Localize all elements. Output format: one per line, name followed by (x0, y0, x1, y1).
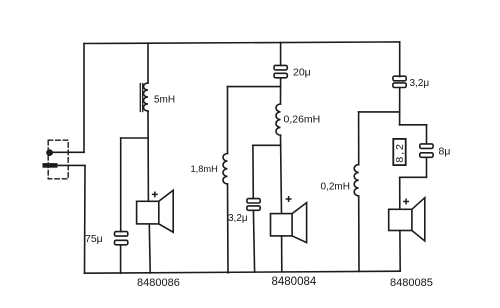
wire top rail (84, 42, 400, 44)
inductor 5mH core lines (140, 84, 142, 112)
wire 0.2mH branch lower (358, 196, 360, 272)
wire 3.2u branch lower (253, 210, 254, 272)
wire tap to 75u (121, 137, 148, 139)
inductor 0.2mH coil (354, 165, 359, 196)
speaker LS3 box (389, 209, 412, 230)
wire left vertical upper (input + to top rail) (83, 44, 85, 153)
wire input minus terminal lead (58, 164, 86, 166)
wire section1 branch top (147, 43, 149, 83)
wire RC bottom bar (400, 176, 427, 178)
capacitor 8u plates (420, 144, 433, 149)
svg-text:0,2mH: 0,2mH (321, 182, 350, 193)
inductor 5mH coil (144, 83, 149, 111)
input terminal dot (46, 149, 53, 156)
wire section2 branch to speaker (281, 135, 282, 213)
wire RC right upper (426, 125, 428, 144)
svg-text:3,2μ: 3,2μ (228, 213, 248, 224)
wire tap to 3.2u (middle) (253, 144, 281, 146)
capacitor 20u plates (274, 65, 287, 70)
wire 1.8mH branch upper (227, 87, 229, 154)
wire section2 branch top (280, 43, 282, 66)
capacitor 3.2u plates (right) (393, 76, 406, 81)
wire input plus terminal lead (50, 151, 84, 153)
svg-text:8μ: 8μ (439, 146, 451, 158)
speaker LS3 plus mark (404, 199, 408, 203)
wire bottom rail (84, 271, 400, 273)
capacitor 75u plates (115, 232, 128, 237)
speaker LS3 cone (412, 198, 425, 241)
wire RC top bar (400, 124, 427, 126)
wire section3 branch cap to RC (399, 88, 401, 125)
input dashed box (48, 140, 68, 179)
input terminal bar (43, 163, 58, 168)
svg-text:20μ: 20μ (293, 67, 311, 79)
wire speaker LS2 to bottom rail (281, 236, 283, 272)
speaker LS1 plus mark (153, 192, 157, 196)
wire 3.2u branch upper (252, 145, 254, 198)
wire 0.2mH branch upper (358, 112, 360, 165)
svg-text:75μ: 75μ (85, 233, 103, 245)
wire section3 branch top (399, 42, 401, 77)
wire 1.8mH branch lower (227, 184, 230, 273)
wire section2 branch between cap and coil (280, 78, 282, 104)
svg-text:8,2: 8,2 (394, 142, 406, 163)
wire speaker LS1 to bottom rail (148, 224, 151, 273)
wire section1 branch middle (147, 111, 149, 201)
inductor 1.8mH coil (223, 154, 228, 184)
svg-text:1,8mH: 1,8mH (191, 164, 218, 174)
wire left vertical lower (input - to bottom rail) (84, 165, 87, 273)
svg-text:0,26mH: 0,26mH (284, 114, 321, 126)
wire speaker LS3 to bottom rail (399, 231, 401, 272)
wire RC right lower (426, 157, 428, 177)
svg-text:8480085: 8480085 (390, 277, 433, 289)
svg-text:5mH: 5mH (154, 95, 175, 106)
wire RC to speaker (399, 177, 401, 209)
wire 75u branch lower (120, 245, 122, 273)
resistor 8.2 box (393, 139, 405, 165)
svg-text:8480084: 8480084 (272, 276, 317, 288)
wire 75u branch upper (120, 138, 122, 232)
speaker LS1 cone (159, 190, 173, 232)
inductor 0.26mH coil (276, 104, 281, 135)
svg-text:8480086: 8480086 (137, 277, 180, 289)
speaker LS2 box (271, 214, 293, 236)
wire tap to 0.2mH (359, 111, 400, 113)
speaker LS1 box (137, 201, 159, 224)
wire tap to 1.8mH (228, 86, 281, 88)
capacitor 3.2u plates (middle) (247, 199, 260, 203)
svg-text:3,2μ: 3,2μ (410, 78, 430, 89)
speaker LS2 plus mark (286, 197, 290, 201)
speaker LS2 cone (292, 203, 307, 243)
